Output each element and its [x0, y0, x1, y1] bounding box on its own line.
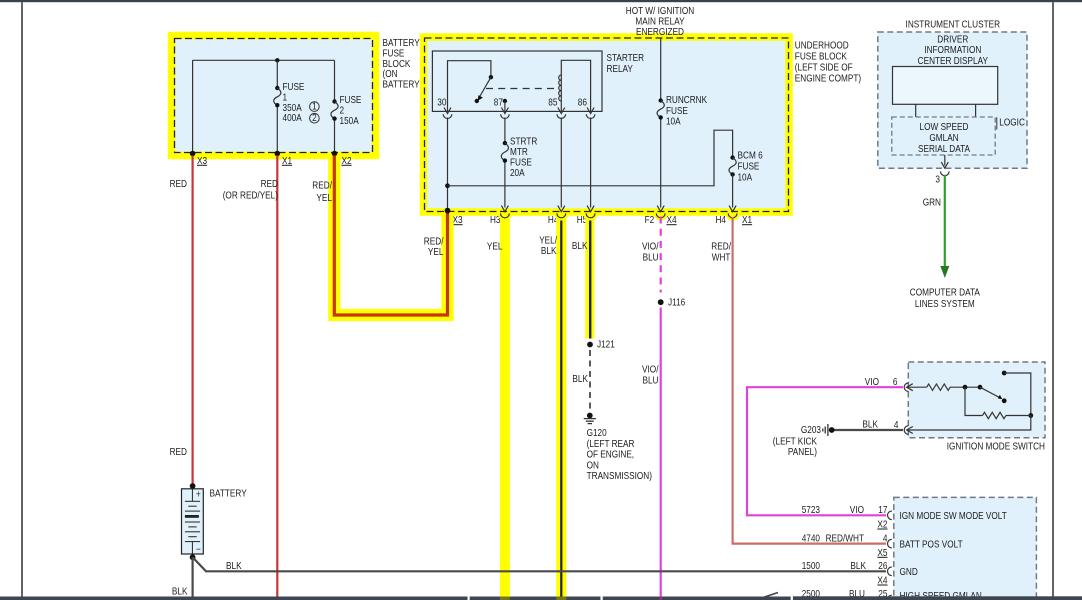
svg-text:BATT POS VOLT: BATT POS VOLT [900, 539, 963, 550]
RED (OR RED/YEL) label [223, 179, 278, 202]
svg-text:BLK: BLK [572, 241, 588, 252]
starter relay K1 box [432, 51, 602, 111]
svg-text:5723: 5723 [802, 505, 821, 516]
right page border line [1052, 2, 1054, 596]
battery negative terminal dot [190, 554, 196, 560]
wire E to pin 4 [908, 416, 1031, 431]
G203 label [773, 425, 822, 458]
svg-text:(LEFT REAR: (LEFT REAR [587, 439, 635, 450]
switch resistor R1 [908, 384, 980, 390]
svg-text:DRIVER: DRIVER [937, 35, 968, 46]
svg-text:RUNCRNK: RUNCRNK [666, 95, 707, 106]
switch pivot node [978, 385, 983, 390]
svg-text:X2: X2 [342, 156, 352, 167]
svg-text:WHT: WHT [712, 253, 731, 264]
relay switch arm [475, 75, 494, 103]
svg-text:MAIN RELAY: MAIN RELAY [635, 17, 684, 28]
svg-text:RELAY: RELAY [607, 64, 634, 75]
BLK wire battery down to page edge [192, 557, 194, 596]
wire pin30 to X3 terminal [447, 118, 449, 212]
terminal X2 of battery fuse block [332, 151, 352, 167]
svg-text:1500: 1500 [802, 561, 821, 572]
instrument cluster box [878, 32, 1027, 168]
svg-text:−: − [196, 545, 201, 556]
svg-text:FUSE: FUSE [283, 82, 305, 93]
VIO/BLU label lower [642, 365, 659, 387]
svg-text:YEL: YEL [428, 247, 444, 258]
dashed BLK wire J121 to G120 [589, 350, 591, 411]
VIO/BLU label top [642, 242, 659, 264]
svg-text:YEL: YEL [316, 193, 332, 204]
left page border line [21, 2, 23, 596]
pin 4 labels [802, 533, 963, 559]
pin 26 socket [888, 567, 892, 576]
pin 25 labels [802, 589, 982, 600]
BLK wire battery to BCM GND [193, 557, 886, 571]
svg-text:+: + [196, 490, 201, 501]
svg-text:26: 26 [878, 561, 888, 572]
svg-text:J116: J116 [668, 298, 686, 309]
svg-text:BLK: BLK [226, 561, 242, 572]
svg-text:PANEL): PANEL) [788, 447, 817, 458]
svg-text:FUSE BLOCK: FUSE BLOCK [795, 52, 847, 63]
svg-text:HOT W/ IGNITION: HOT W/ IGNITION [626, 6, 694, 17]
wire 86 to H5 [590, 118, 592, 208]
svg-text:1: 1 [312, 102, 317, 113]
svg-text:GND: GND [900, 567, 918, 578]
fuse F1 value label [283, 82, 320, 124]
svg-text:BCM 6: BCM 6 [738, 151, 764, 162]
RED/WHT label [711, 242, 731, 264]
battery positive terminal dot [190, 483, 196, 489]
terminal X3 dot underhood [445, 208, 451, 214]
RUNCRNK fuse label [666, 95, 707, 128]
pin 17 labels [802, 505, 1007, 531]
svg-text:VIO: VIO [865, 377, 879, 388]
starter relay label [607, 53, 645, 75]
pin 6 arrow [907, 384, 913, 391]
svg-text:(LEFT SIDE OF: (LEFT SIDE OF [795, 63, 853, 74]
RUNCRNK fuse element [657, 98, 664, 119]
wire RED/YEL highlighted bend X2 to underhood X3 [334, 156, 447, 316]
svg-text:1: 1 [283, 92, 288, 103]
svg-text:2: 2 [312, 113, 317, 124]
svg-text:BLU: BLU [643, 253, 659, 264]
svg-text:F2: F2 [645, 215, 655, 226]
battery body [182, 489, 204, 556]
relay pin sockets below box [443, 114, 595, 118]
svg-text:X3: X3 [197, 156, 207, 167]
svg-text:VIO: VIO [850, 505, 864, 516]
junction at top of fuse 1 [275, 58, 279, 62]
driver information center display label [918, 35, 989, 67]
wire RED from battery fuse X3 to battery [192, 156, 194, 487]
svg-text:RED: RED [261, 179, 278, 190]
terminal sockets below bottom edge [501, 213, 738, 217]
wire 87 to strtr fuse to H3 [504, 118, 506, 208]
switch node A [963, 385, 968, 390]
svg-text:17: 17 [878, 505, 888, 516]
svg-text:LINES SYSTEM: LINES SYSTEM [915, 299, 975, 310]
relay pin arrows at box edge [444, 108, 594, 114]
BCM6 branch wire [448, 130, 733, 186]
svg-text:UNDERHOOD: UNDERHOOD [795, 41, 849, 52]
pin 4 arrow [907, 427, 913, 434]
svg-text:BLK: BLK [850, 561, 866, 572]
GRN wire [944, 175, 946, 268]
svg-text:J121: J121 [597, 340, 615, 351]
wire BLK highlighted from H5 to J121 [585, 215, 594, 339]
svg-text:FUSE: FUSE [738, 162, 760, 173]
wire BCM6 fuse to X1 terminal [732, 174, 734, 207]
wire gmlan box to pin 3 [944, 155, 946, 166]
pin 26 labels [802, 561, 918, 587]
body control module box [894, 497, 1037, 600]
svg-text:86: 86 [578, 98, 588, 109]
STRTR MTR FUSE element [501, 141, 508, 163]
relay pin 87 wire [503, 99, 507, 112]
pin 6 socket [904, 383, 908, 392]
svg-text:85: 85 [548, 98, 558, 109]
svg-text:BLK: BLK [862, 420, 878, 431]
switch node E [1028, 413, 1033, 418]
svg-text:10A: 10A [666, 117, 681, 128]
svg-text:X1: X1 [742, 215, 752, 226]
svg-text:X4: X4 [877, 576, 887, 587]
switch arm with arrow [980, 387, 1007, 403]
svg-text:X5: X5 [877, 548, 887, 559]
pin 3 arrow at box edge [941, 162, 948, 168]
G120 label [587, 428, 652, 482]
svg-text:BLU: BLU [643, 376, 659, 387]
switch resistor R2 [965, 387, 1031, 418]
bus wire inside battery fuse block [193, 59, 335, 61]
low speed gmlan box [892, 117, 995, 155]
svg-text:10A: 10A [738, 173, 753, 184]
wire D to E [1004, 373, 1031, 416]
svg-text:COMPUTER DATA: COMPUTER DATA [910, 288, 980, 299]
svg-text:RED/: RED/ [312, 181, 332, 192]
VIO wire switch pin6 to BCM pin 17 [747, 387, 903, 515]
fuse F2 value label [340, 95, 362, 127]
svg-text:X2: X2 [877, 520, 887, 531]
svg-text:RED/WHT: RED/WHT [826, 533, 864, 544]
STRTR MTR FUSE label [510, 137, 537, 179]
svg-text:FUSE: FUSE [383, 48, 405, 59]
svg-text:4: 4 [883, 533, 888, 544]
wire to X3 [192, 60, 194, 153]
svg-text:YEL/: YEL/ [539, 236, 557, 247]
svg-text:GRN: GRN [923, 198, 941, 209]
ground G203 [823, 424, 835, 436]
fuse F1 element [274, 86, 281, 108]
GRN arrowhead [940, 266, 949, 278]
svg-text:GMLAN: GMLAN [929, 133, 958, 144]
BCM 6 fuse element [729, 155, 736, 176]
terminal X3 of battery fuse block [190, 151, 208, 167]
svg-text:G120: G120 [587, 428, 607, 439]
top page bar [0, 0, 1082, 2]
svg-text:X4: X4 [667, 215, 677, 226]
wire YEL from H3 down [500, 215, 510, 597]
fuse F2 wires [334, 60, 336, 153]
svg-text:RED: RED [170, 179, 187, 190]
relay contact wire pin 30 [448, 61, 491, 112]
svg-text:6: 6 [893, 377, 898, 388]
splice J121 [587, 340, 615, 351]
bottom page bar [0, 596, 1082, 600]
svg-text:RED/: RED/ [424, 237, 444, 248]
svg-text:BLK: BLK [172, 587, 188, 598]
pin 4 socket [904, 426, 908, 435]
battery fuse block label [383, 38, 423, 91]
svg-text:(LEFT KICK: (LEFT KICK [773, 437, 817, 448]
svg-text:RED: RED [170, 447, 187, 458]
svg-text:VIO/: VIO/ [642, 365, 659, 376]
svg-text:OF ENGINE,: OF ENGINE, [587, 450, 635, 461]
svg-text:30: 30 [437, 98, 447, 109]
svg-text:IGN MODE SW MODE VOLT: IGN MODE SW MODE VOLT [900, 511, 1007, 522]
svg-text:G203: G203 [801, 425, 821, 436]
wire RED/WHT X1 to BCM pin 4 [733, 217, 886, 544]
relay coil [559, 60, 591, 111]
relay linkage dashed [486, 88, 556, 90]
underhood fuse block box [424, 37, 790, 212]
svg-text:2: 2 [340, 105, 345, 116]
svg-text:STRTR: STRTR [510, 137, 537, 148]
svg-text:(OR RED/YEL): (OR RED/YEL) [223, 191, 278, 202]
relay pin labels [437, 98, 587, 109]
display screen rect [893, 67, 998, 105]
junction on X3 wire [445, 183, 450, 188]
svg-text:ON: ON [587, 460, 599, 471]
svg-text:3: 3 [935, 175, 940, 186]
BLK wire pin 4 to G203 [832, 429, 903, 431]
wire 85 to H4 [560, 118, 562, 208]
RUNCRNK fuse wire [660, 38, 662, 208]
wire YEL/BLK from H4 down [556, 215, 566, 597]
solid VIO/BLU wire J116 down [660, 308, 662, 597]
RED/YEL label at underhood X3 [424, 237, 444, 259]
BCM 6 fuse label [738, 151, 764, 184]
svg-text:LOGIC: LOGIC [999, 118, 1025, 129]
hot w/ ignition caption [626, 6, 694, 38]
svg-text:X1: X1 [282, 156, 292, 167]
RED/YEL label at X2 [312, 181, 332, 205]
low speed gmlan label [918, 122, 970, 155]
svg-text:150A: 150A [340, 116, 359, 127]
svg-text:RED/: RED/ [711, 242, 731, 253]
YEL/BLK label [539, 236, 557, 258]
wire BLU diagonal stub [763, 593, 778, 598]
ground G120 [584, 413, 596, 424]
svg-text:SERIAL DATA: SERIAL DATA [918, 144, 970, 155]
svg-text:H4: H4 [716, 215, 727, 226]
svg-text:BLK: BLK [541, 246, 557, 257]
wire RED (OR RED/YEL) from X1 down [276, 156, 278, 597]
svg-text:FUSE: FUSE [666, 106, 688, 117]
svg-text:FUSE: FUSE [340, 95, 362, 106]
svg-text:350A: 350A [283, 103, 302, 114]
svg-text:(ON: (ON [383, 69, 398, 80]
svg-text:ENGINE COMPT): ENGINE COMPT) [795, 74, 861, 85]
svg-text:X3: X3 [453, 215, 463, 226]
pin 4 socket [887, 539, 891, 548]
svg-text:CENTER DISPLAY: CENTER DISPLAY [918, 56, 989, 67]
pin 17 socket [888, 511, 892, 520]
svg-text:YEL: YEL [487, 242, 503, 253]
svg-text:IGNITION MODE SWITCH: IGNITION MODE SWITCH [947, 442, 1045, 453]
terminal arrows at bottom edge [501, 206, 736, 212]
underhood fuse block label [795, 41, 861, 85]
terminal X1 of battery fuse block [275, 151, 293, 167]
fuse F2 element [331, 99, 338, 121]
svg-text:STARTER: STARTER [607, 53, 645, 64]
battery fuse block box [172, 36, 376, 156]
svg-text:BLOCK: BLOCK [383, 59, 411, 70]
svg-text:BATTERY): BATTERY) [383, 80, 423, 91]
svg-text:BATTERY: BATTERY [210, 489, 247, 500]
terminal labels underhood [453, 215, 753, 226]
logic label [997, 117, 1025, 129]
dashed VIO/BLU wire F2 to J116 [660, 217, 662, 293]
svg-text:LOW SPEED: LOW SPEED [920, 122, 969, 133]
svg-text:TRANSMISSION): TRANSMISSION) [587, 471, 652, 482]
svg-text:87: 87 [494, 98, 504, 109]
pin 3 socket [941, 171, 950, 175]
svg-text:INSTRUMENT CLUSTER: INSTRUMENT CLUSTER [906, 19, 1001, 30]
fuse F1 wires [276, 60, 278, 153]
svg-text:ENERGIZED: ENERGIZED [636, 27, 684, 38]
svg-text:FUSE: FUSE [510, 157, 532, 168]
svg-text:VIO/: VIO/ [642, 242, 659, 253]
ignition mode switch box [908, 362, 1045, 438]
svg-text:4740: 4740 [802, 533, 821, 544]
display legs [916, 104, 976, 117]
computer data lines label [910, 288, 980, 311]
switch contact D [1002, 371, 1007, 376]
svg-text:BATTERY: BATTERY [383, 38, 420, 49]
svg-text:20A: 20A [510, 168, 525, 179]
svg-text:BLK: BLK [572, 374, 588, 385]
svg-text:400A: 400A [283, 113, 302, 124]
pin 25 socket [888, 595, 892, 600]
splice J116 [658, 298, 686, 309]
svg-text:INFORMATION: INFORMATION [924, 45, 981, 56]
